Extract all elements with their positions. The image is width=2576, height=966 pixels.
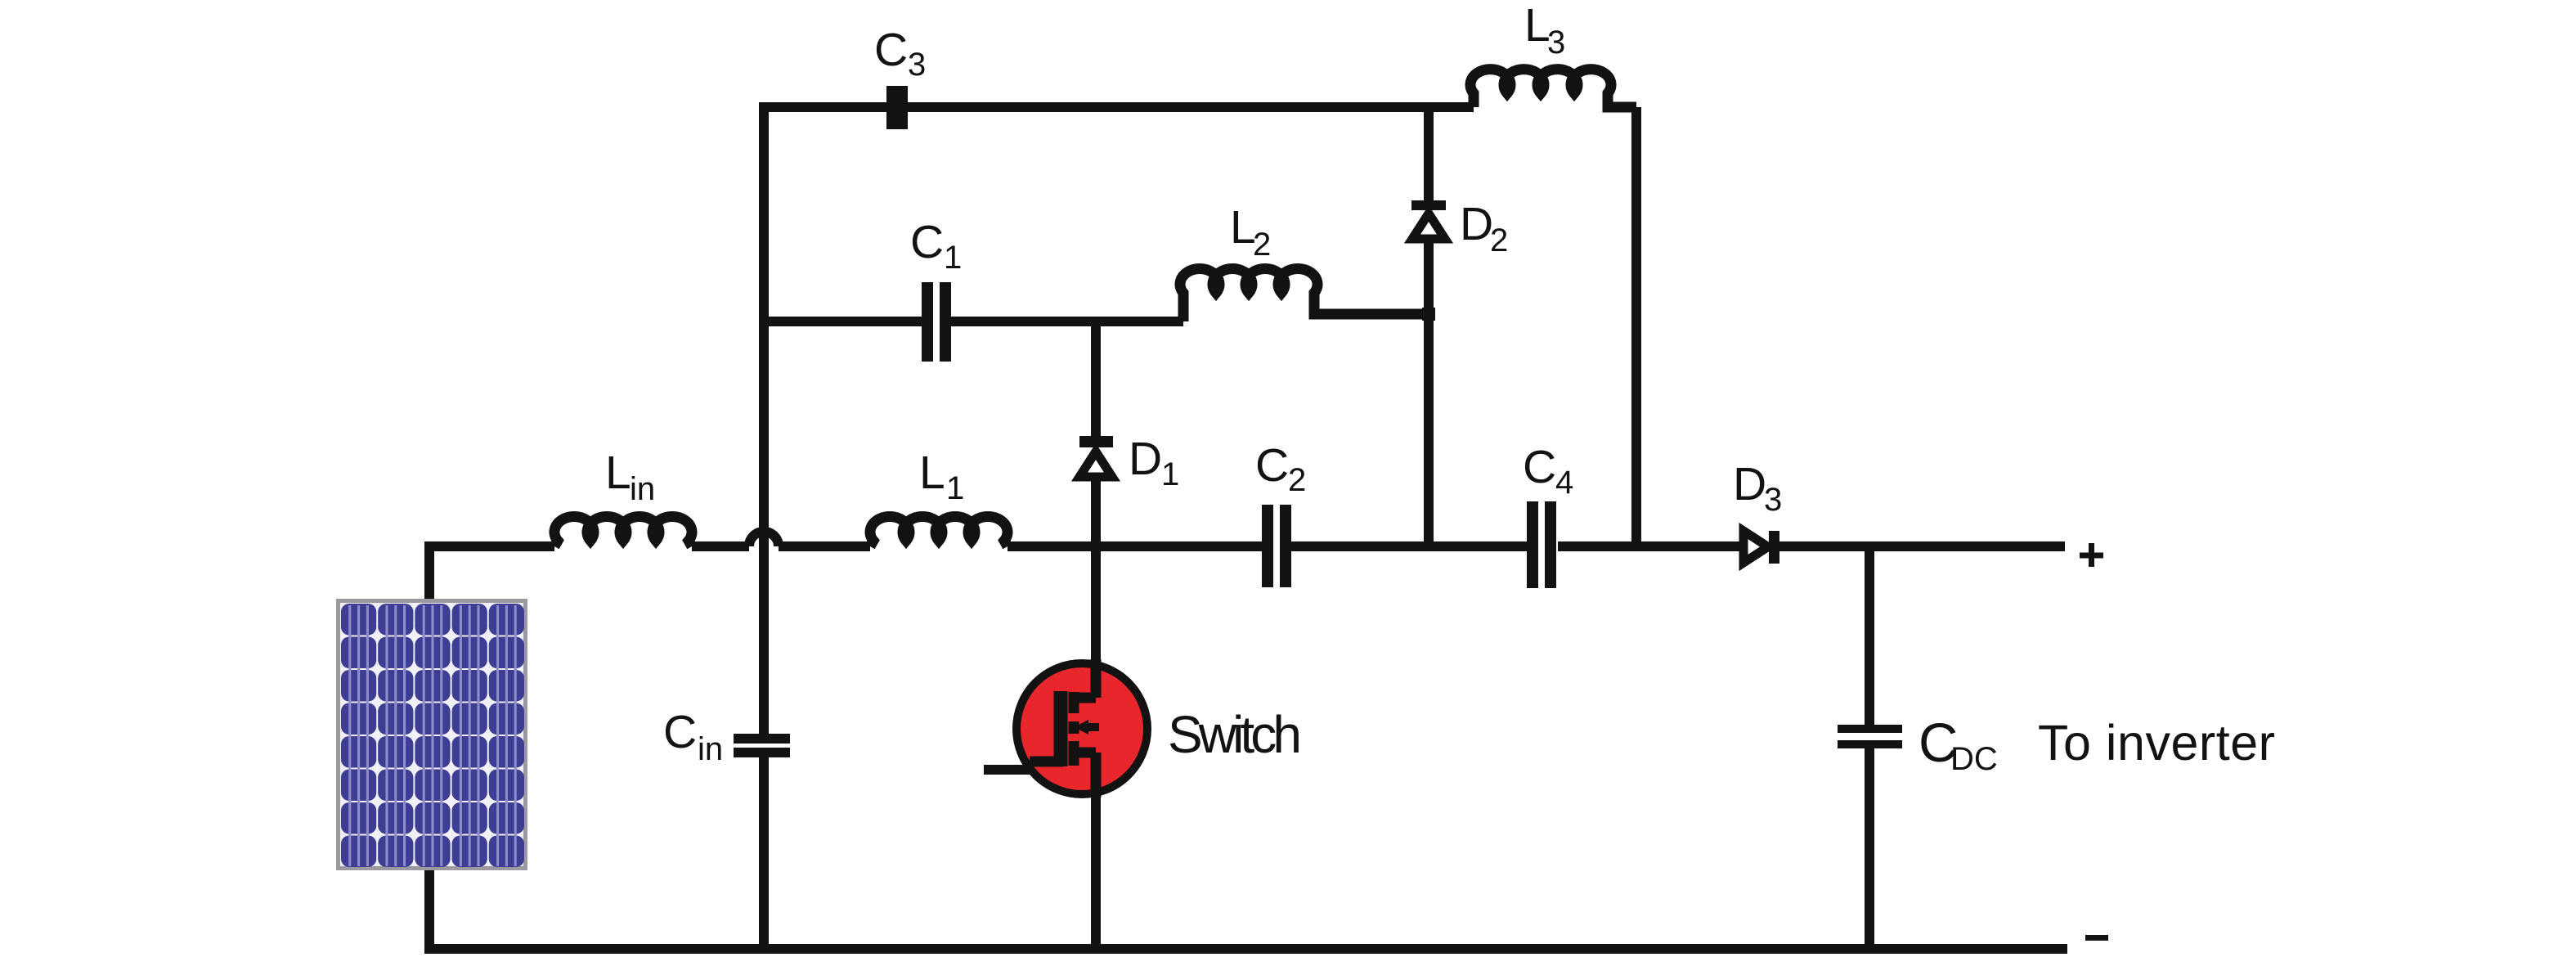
- switch MOSFET circle: [984, 659, 1147, 798]
- wire CDC lower: [1865, 748, 1874, 949]
- capacitor C3 (solid block): [886, 86, 908, 129]
- label L1: [919, 447, 964, 506]
- svg-text:L: L: [919, 447, 945, 499]
- label D1: [1129, 433, 1179, 492]
- wire bus Lin to hop: [692, 541, 749, 551]
- diode D2: [1411, 200, 1446, 239]
- svg-text:2: 2: [1490, 222, 1508, 258]
- diode D3: [1744, 531, 1779, 564]
- capacitor Cin: [734, 734, 790, 757]
- label CDC: [1919, 712, 1998, 777]
- switch source stub and lead: [1074, 753, 1096, 798]
- wire C2 to C4: [1291, 541, 1527, 551]
- svg-text:3: 3: [1764, 482, 1782, 518]
- switch body arrow: [1083, 723, 1099, 731]
- svg-text:1: 1: [1161, 456, 1179, 492]
- label L2: [1230, 201, 1271, 263]
- switch channel segments: [1069, 692, 1079, 766]
- wire hop over left vertical: [749, 532, 779, 546]
- wire left vertical (lower, below Cin): [759, 757, 769, 949]
- switch gate bar: [1054, 691, 1068, 766]
- label C2: [1255, 439, 1306, 498]
- solar panel PV module: [339, 601, 526, 869]
- svg-text:3: 3: [1547, 25, 1565, 61]
- svg-text:4: 4: [1555, 465, 1573, 501]
- switch gate lead outside: [984, 765, 1032, 775]
- junction dot L2/D2: [1422, 308, 1435, 321]
- wire D1 branch lower through switch: [1091, 479, 1101, 949]
- wire hop to L1: [779, 541, 870, 551]
- inductor Lin: [554, 516, 692, 546]
- wire L1 to C2: [1008, 541, 1262, 551]
- svg-text:D: D: [1733, 458, 1766, 510]
- wire CDC upper: [1865, 546, 1874, 725]
- label C1: [910, 216, 962, 276]
- label Lin: [605, 447, 655, 507]
- wire left vertical (upper): [759, 107, 769, 734]
- wire C1 row left: [764, 317, 922, 326]
- svg-text:L: L: [605, 447, 631, 499]
- svg-text:C: C: [910, 216, 944, 268]
- svg-text:in: in: [630, 471, 655, 507]
- wire D3 to + terminal: [1779, 541, 2065, 551]
- svg-text:2: 2: [1288, 462, 1306, 498]
- svg-text:C: C: [1523, 441, 1556, 493]
- svg-text:C: C: [663, 706, 697, 758]
- svg-text:L: L: [1230, 201, 1256, 254]
- capacitor CDC: [1838, 725, 1902, 748]
- label C3: [874, 24, 926, 83]
- switch gate bottom bar: [1030, 757, 1063, 767]
- label C4: [1523, 441, 1573, 501]
- svg-text:3: 3: [908, 47, 926, 83]
- capacitor C1: [922, 282, 951, 362]
- inductor L2: [1180, 268, 1429, 321]
- capacitor C4: [1527, 501, 1556, 588]
- switch drain stub and lead: [1074, 659, 1096, 698]
- svg-text:Switch: Switch: [1168, 705, 1302, 764]
- wire C4 to D3: [1558, 541, 1743, 551]
- label D2: [1460, 198, 1508, 258]
- wire panel top lead and bus to Lin: [429, 546, 554, 603]
- node - terminal: [2085, 935, 2108, 941]
- label L3: [1524, 0, 1565, 61]
- svg-text:2: 2: [1253, 227, 1271, 263]
- svg-text:in: in: [698, 731, 723, 767]
- svg-text:L: L: [1524, 0, 1551, 52]
- label D3: [1733, 458, 1782, 518]
- svg-text:1: 1: [946, 470, 964, 506]
- wire D2 branch lower: [1424, 241, 1434, 546]
- svg-text:D: D: [1129, 433, 1162, 485]
- wire top bus: [759, 102, 1474, 112]
- node + terminal: [2080, 543, 2103, 567]
- wire L3 right vertical: [1631, 107, 1641, 546]
- wire D1 branch upper: [1091, 321, 1101, 436]
- wire D2 branch upper: [1424, 107, 1434, 200]
- svg-text:C: C: [1255, 439, 1289, 492]
- inductor L1: [870, 516, 1008, 546]
- svg-text:C: C: [874, 24, 908, 76]
- svg-text:1: 1: [944, 240, 962, 276]
- diode D1: [1079, 436, 1113, 477]
- label Cin: [663, 706, 723, 767]
- svg-text:To inverter: To inverter: [2038, 715, 2275, 771]
- inductor L3: [1470, 70, 1636, 107]
- wire C1 row right: [951, 317, 1183, 326]
- svg-text:D: D: [1460, 198, 1493, 250]
- capacitor C2: [1262, 505, 1291, 587]
- svg-text:DC: DC: [1950, 741, 1998, 777]
- wire bottom bus with panel bottom lead: [429, 863, 2067, 949]
